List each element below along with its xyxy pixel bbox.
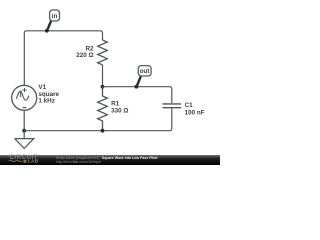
flag tail out [137, 76, 141, 86]
svg-text:C1: C1 [185, 102, 194, 109]
flag tail in [47, 21, 51, 31]
node out flag box [138, 66, 151, 76]
svg-text:http://circuitlab.com/c3r2mpw: http://circuitlab.com/c3r2mpw [56, 160, 102, 164]
wire V1 minus to ground junction [23, 110, 25, 131]
svg-text:in: in [52, 13, 58, 20]
junction dot node in [45, 29, 49, 33]
wire ground rail to C1 bottom [24, 108, 172, 131]
svg-text:LAB: LAB [28, 159, 39, 164]
junction dot node out (R2/R1) [101, 85, 105, 89]
svg-text:330 Ω: 330 Ω [111, 107, 128, 114]
wire R2 bottom to node out [102, 65, 104, 87]
junction dot R1 bottom [101, 129, 105, 133]
V1 waveform glyph [17, 91, 29, 100]
wire node out to C1 top [103, 87, 172, 104]
junction dot out flag [135, 85, 139, 89]
svg-text:out: out [140, 68, 151, 75]
capacitor C1 plates [162, 104, 181, 108]
footer bar [0, 155, 220, 165]
junction dot ground node [22, 129, 26, 133]
ground symbol [15, 131, 34, 149]
node in flag box [50, 10, 60, 21]
svg-text:1 kHz: 1 kHz [38, 97, 54, 104]
V1 plus sign [22, 88, 26, 92]
resistor R1 [98, 87, 108, 131]
svg-text:220 Ω: 220 Ω [76, 52, 93, 59]
wire from V1 plus terminal up and across to R2 top [24, 31, 102, 86]
V1 minus sign [23, 107, 27, 109]
svg-text:100 nF: 100 nF [185, 109, 205, 116]
voltage source V1 circle [12, 85, 37, 110]
resistor R2 [98, 40, 108, 65]
